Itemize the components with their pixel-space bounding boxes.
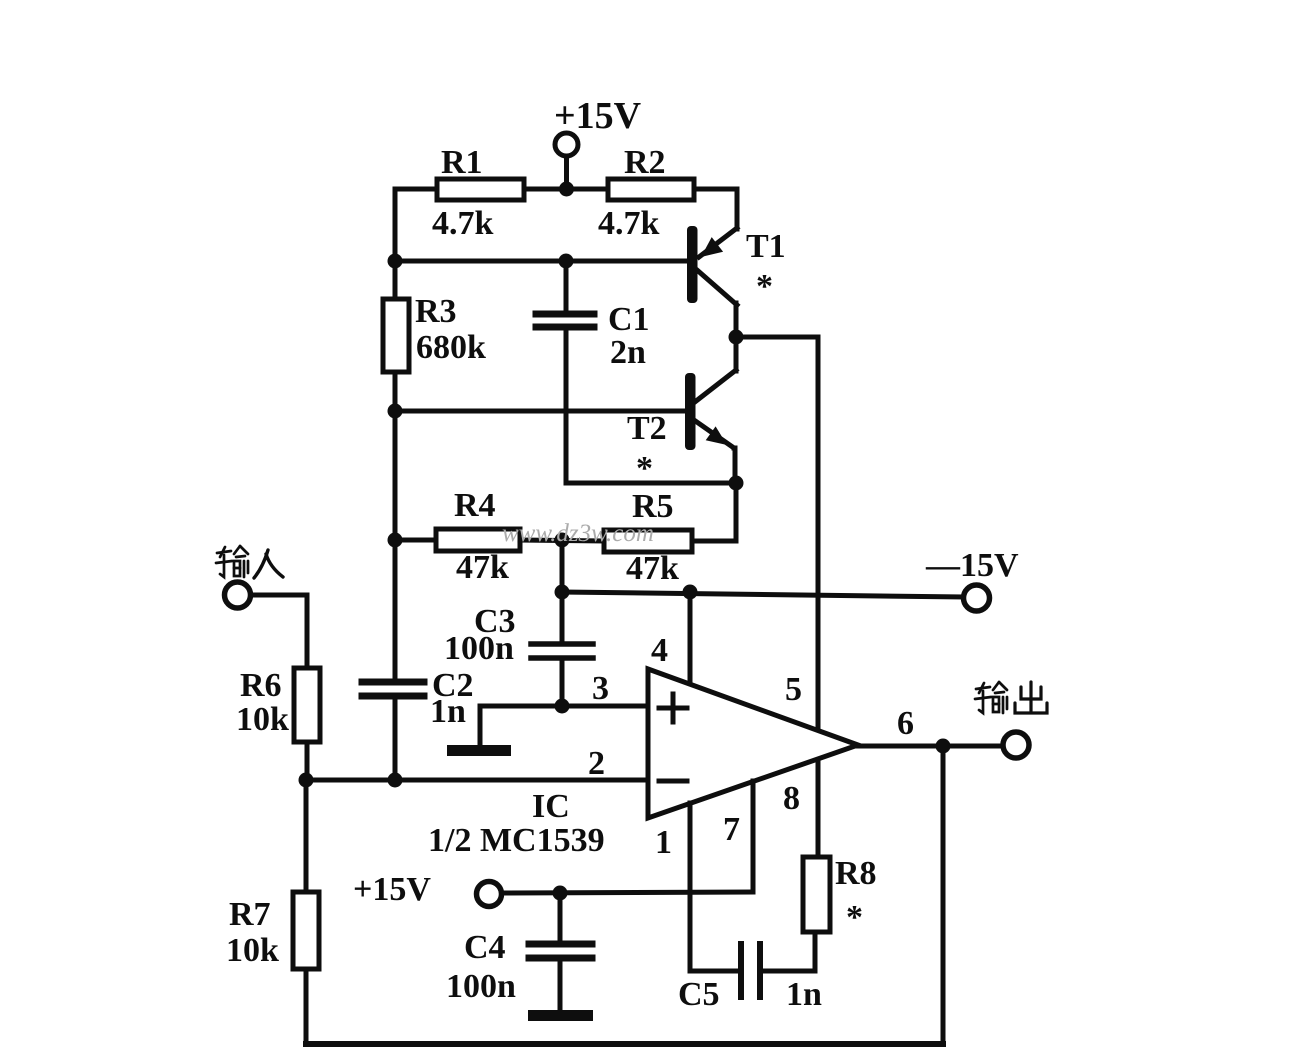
- wire pin4: [688, 592, 693, 686]
- svg-text:1/2 MC1539: 1/2 MC1539: [428, 822, 605, 859]
- svg-text:*: *: [756, 268, 773, 305]
- minus input mark: [659, 779, 687, 784]
- output terminal: [1003, 732, 1029, 758]
- svg-text:100n: 100n: [444, 630, 514, 667]
- wire pin8: [816, 760, 821, 857]
- wire C3 bottom lead: [560, 661, 565, 706]
- svg-text:3: 3: [592, 670, 609, 707]
- node pin2 / R6 R7: [299, 773, 314, 788]
- svg-text:C1: C1: [608, 301, 650, 338]
- wire C5 to R8: [763, 932, 815, 971]
- wire top rail left: [395, 187, 437, 192]
- svg-text:C4: C4: [464, 929, 506, 966]
- node left rail / T2 base: [388, 404, 403, 419]
- node C4 top: [553, 886, 568, 901]
- svg-text:47k: 47k: [626, 550, 679, 587]
- wire R5 right: [692, 539, 736, 544]
- resistor R5: [604, 530, 692, 552]
- svg-text:4.7k: 4.7k: [432, 205, 494, 242]
- svg-text:4: 4: [651, 632, 668, 669]
- input terminal: [225, 582, 251, 608]
- resistor R3: [383, 299, 409, 372]
- wire C1 to T2 emitter node: [566, 481, 736, 486]
- left rail lower segment: [393, 698, 398, 780]
- svg-text:R4: R4: [454, 487, 496, 524]
- svg-text:+15V: +15V: [554, 95, 642, 137]
- bottom rail wire: [306, 1041, 943, 1047]
- capacitor C2: [362, 682, 424, 696]
- node T2 emitter / C1 / R5: [729, 476, 744, 491]
- node T1/T2 junction: [729, 330, 744, 345]
- svg-text:IC: IC: [532, 788, 570, 825]
- svg-text:2n: 2n: [610, 334, 646, 371]
- wire output: [858, 744, 1003, 749]
- wire pin1 to C5: [690, 803, 737, 971]
- plus input mark: [659, 694, 687, 722]
- resistor R7: [293, 892, 319, 969]
- wire pin7: [751, 781, 756, 892]
- wire T2 base: [395, 409, 686, 414]
- svg-text:—15V: —15V: [925, 547, 1019, 584]
- svg-text:R6: R6: [240, 667, 282, 704]
- svg-text:T1: T1: [746, 228, 786, 265]
- wire C4 top lead: [558, 893, 563, 941]
- wire node down to R5: [734, 483, 739, 541]
- transistor T1: [687, 226, 737, 305]
- svg-text:7: 7: [723, 811, 740, 848]
- resistor R2: [608, 179, 694, 200]
- wire R7 to bottom rail: [304, 969, 309, 1044]
- svg-text:R8: R8: [835, 855, 877, 892]
- wire node to pin5 rail: [736, 337, 818, 727]
- node pin4 on -15V rail: [683, 585, 698, 600]
- svg-text:10k: 10k: [236, 701, 289, 738]
- svg-text:R2: R2: [624, 144, 666, 181]
- wire pin2: [306, 778, 648, 783]
- svg-text:1n: 1n: [430, 693, 466, 730]
- svg-text:C5: C5: [678, 976, 720, 1013]
- resistor R6: [294, 668, 320, 742]
- node pin2 / left rail: [388, 773, 403, 788]
- power terminal -15V: [964, 585, 990, 611]
- wire -15V rail: [562, 592, 963, 597]
- capacitor C3: [531, 644, 593, 658]
- wire R4 node down to -15V rail: [560, 540, 565, 642]
- node +15V rail: [559, 182, 574, 197]
- svg-text:R3: R3: [415, 293, 457, 330]
- wire node to R7: [304, 780, 309, 892]
- resistor R8: [803, 857, 830, 932]
- svg-text:47k: 47k: [456, 549, 509, 586]
- svg-text:6: 6: [897, 705, 914, 742]
- wire C4 bottom lead: [558, 960, 563, 1011]
- power terminal +15V bottom: [477, 882, 502, 907]
- svg-text:T2: T2: [627, 410, 667, 447]
- wire +15V rail bottom: [502, 892, 753, 893]
- svg-text:4.7k: 4.7k: [598, 205, 660, 242]
- svg-text:R1: R1: [441, 144, 483, 181]
- wire C1 top lead: [564, 261, 569, 310]
- wire T2 emitter to node: [734, 448, 735, 483]
- resistor R1: [437, 179, 524, 200]
- op-amp U1: [648, 669, 858, 818]
- node left rail / T1 base: [388, 254, 403, 269]
- svg-text:8: 8: [783, 780, 800, 817]
- node pin3 / C3: [555, 699, 570, 714]
- wire T1 collector to node: [734, 303, 739, 371]
- svg-text:2: 2: [588, 745, 605, 782]
- svg-text:5: 5: [785, 671, 802, 708]
- ground (C4): [528, 1010, 593, 1021]
- wire T1 base: [395, 259, 687, 264]
- wire pin3: [480, 704, 648, 709]
- node C1 top: [559, 254, 574, 269]
- left rail mid segment: [393, 372, 398, 678]
- node left rail R4: [388, 533, 403, 548]
- wire R1 to +15V node: [524, 187, 608, 192]
- svg-text:680k: 680k: [416, 329, 486, 366]
- transistor T2: [685, 370, 736, 450]
- svg-text:*: *: [846, 899, 863, 936]
- resistor R4: [436, 529, 520, 551]
- svg-text:1: 1: [655, 824, 672, 861]
- wire R6 to node: [305, 742, 310, 780]
- wire R4 to R5: [520, 540, 604, 541]
- svg-text:10k: 10k: [226, 932, 279, 969]
- label shuru (input): [216, 546, 283, 578]
- capacitor C1: [536, 314, 594, 327]
- svg-text:+15V: +15V: [353, 871, 431, 908]
- node output: [936, 739, 951, 754]
- wire left rail to R4: [395, 538, 436, 543]
- wire input to R6: [251, 595, 307, 668]
- label shuchu (output): [975, 682, 1047, 713]
- node R4/R5 junction: [555, 533, 570, 548]
- svg-text:www.dz3w.com: www.dz3w.com: [502, 520, 654, 547]
- capacitor C5: [741, 944, 760, 997]
- ground (pin3): [447, 706, 511, 756]
- svg-text:100n: 100n: [446, 968, 516, 1005]
- capacitor C4: [529, 944, 592, 958]
- svg-text:1n: 1n: [786, 976, 822, 1013]
- svg-text:R7: R7: [229, 896, 271, 933]
- wire output feedback: [941, 746, 946, 1044]
- node -15V rail left: [555, 585, 570, 600]
- left rail upper segment: [393, 189, 398, 299]
- wire C1 bottom lead: [564, 331, 569, 483]
- wire R2 to T1 emitter corner: [694, 189, 737, 229]
- power terminal +15V top: [555, 133, 578, 189]
